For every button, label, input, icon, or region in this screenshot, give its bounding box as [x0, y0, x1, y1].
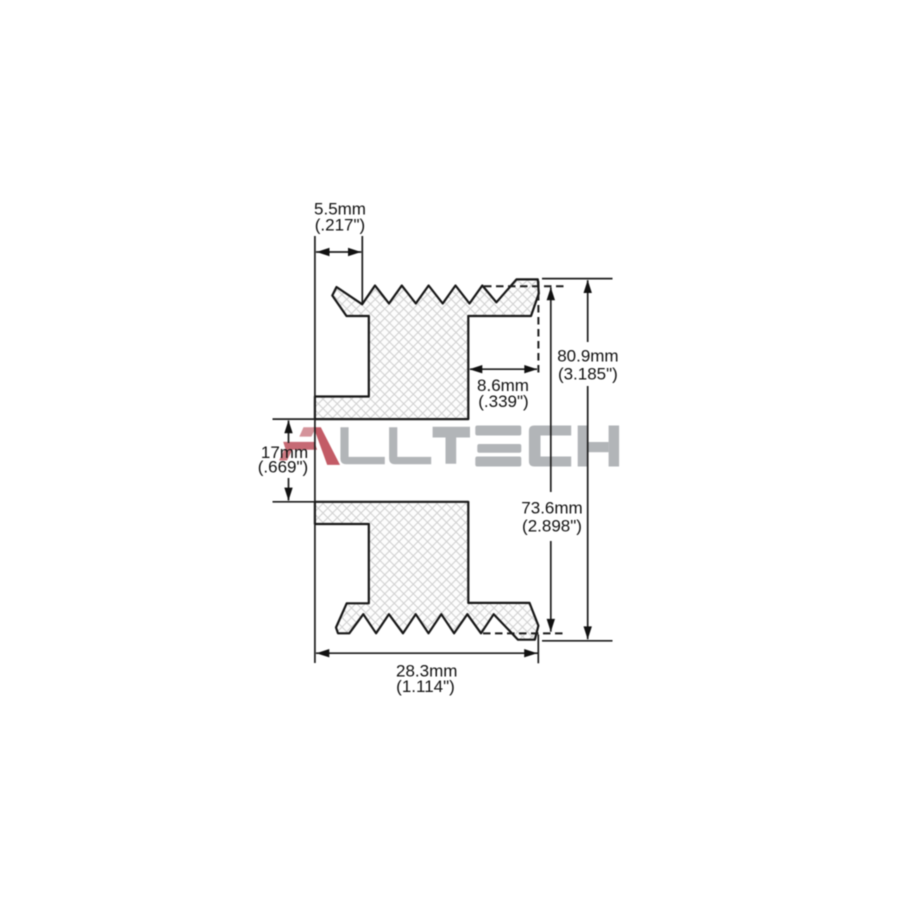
svg-text:(2.898"): (2.898")	[522, 517, 582, 536]
5.5 right extension	[361, 236, 363, 303]
svg-text:(3.185"): (3.185")	[558, 365, 618, 384]
dimension texts	[258, 200, 619, 696]
watermark ALLTECH	[279, 426, 619, 467]
lower cross-section polygon	[315, 502, 539, 640]
80.9mm heads	[584, 280, 592, 293]
top extension (80.9)	[542, 278, 613, 280]
svg-text:(.217"): (.217")	[315, 216, 365, 235]
73.6 line (broken for text)	[550, 287, 552, 492]
svg-text:(.669"): (.669")	[258, 458, 308, 477]
28.3mm heads	[316, 649, 329, 657]
17mm heads	[284, 420, 292, 433]
bottom extension (80.9)	[542, 640, 613, 642]
5.5 arrow line	[316, 251, 361, 253]
svg-text:73.6mm: 73.6mm	[521, 499, 582, 518]
svg-text:(.339"): (.339")	[478, 392, 528, 411]
svg-text:(1.114"): (1.114")	[396, 677, 455, 696]
letter A (red)	[279, 427, 340, 465]
dashed lines	[483, 281, 568, 633]
upper cross-section polygon	[315, 279, 539, 419]
svg-text:80.9mm: 80.9mm	[557, 346, 618, 365]
arrowheads	[284, 248, 592, 658]
17mm stem	[288, 421, 290, 444]
28.3 right extension	[537, 635, 539, 664]
letters LLTECH (gray)	[340, 426, 619, 467]
8.6mm heads	[469, 365, 482, 373]
dimension lines	[273, 236, 613, 663]
left vertical (outline + extension for 5.5 and 28.3)	[314, 236, 316, 663]
5.5mm heads	[317, 248, 330, 256]
28.3 arrow line	[316, 652, 538, 654]
8.6 arrow line	[470, 368, 537, 370]
17mm ticks	[273, 418, 469, 420]
80.9 line (broken for text)	[587, 280, 589, 342]
73.6mm heads	[547, 287, 555, 300]
